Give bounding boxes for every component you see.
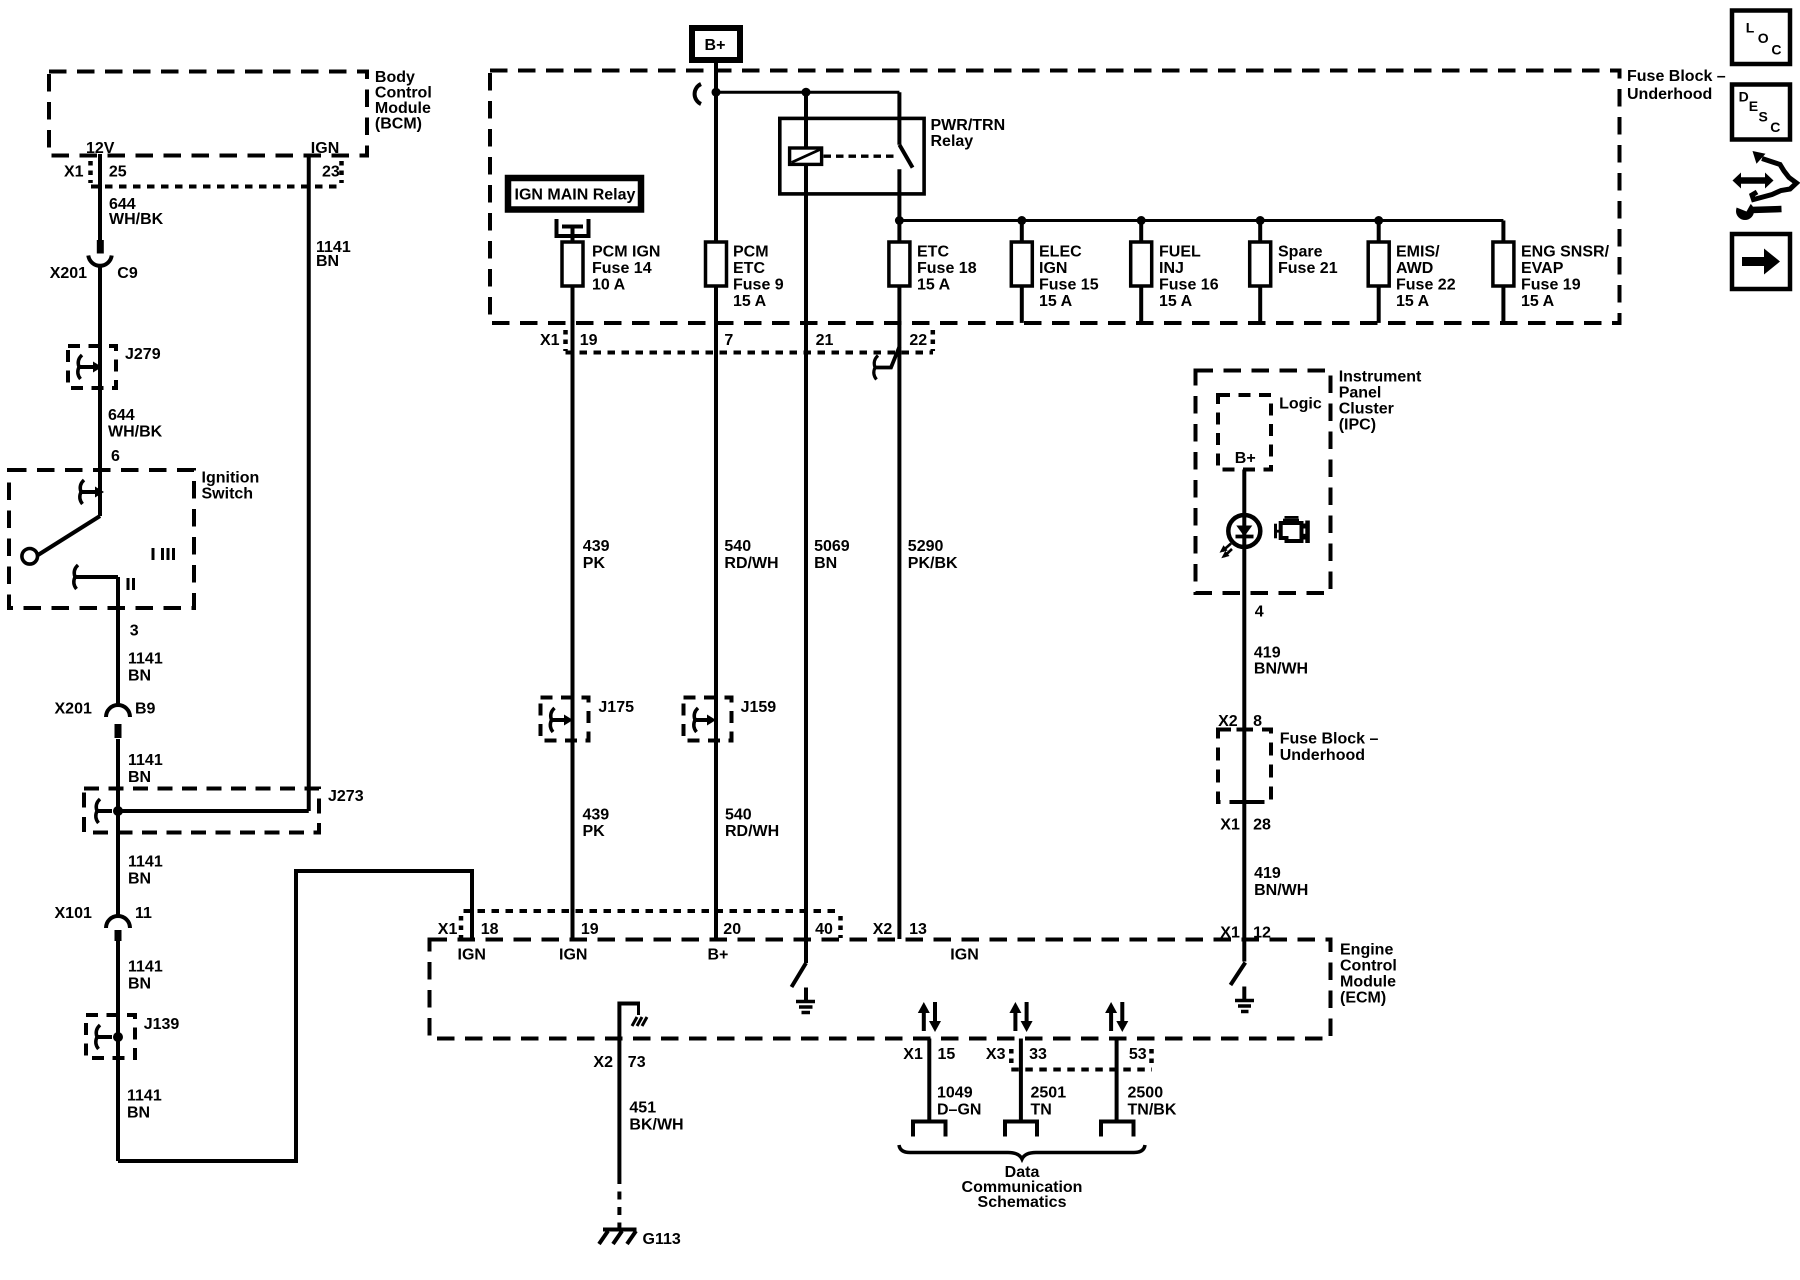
svg-text:J279: J279 xyxy=(125,346,161,363)
svg-text:Panel: Panel xyxy=(1339,385,1382,402)
svg-text:6: 6 xyxy=(111,448,120,465)
svg-text:X3: X3 xyxy=(986,1046,1006,1063)
svg-text:FUEL: FUEL xyxy=(1159,244,1201,261)
svg-text:Spare: Spare xyxy=(1278,244,1323,261)
svg-text:TN: TN xyxy=(1031,1102,1052,1119)
svg-text:23: 23 xyxy=(322,164,340,181)
svg-text:B+: B+ xyxy=(1235,450,1256,467)
svg-text:2500: 2500 xyxy=(1128,1085,1164,1102)
svg-text:O: O xyxy=(1758,30,1769,46)
svg-text:X201: X201 xyxy=(50,265,87,282)
svg-text:Fuse 21: Fuse 21 xyxy=(1278,260,1338,277)
svg-text:22: 22 xyxy=(909,332,927,349)
svg-text:INJ: INJ xyxy=(1159,260,1184,277)
svg-text:15 A: 15 A xyxy=(1159,293,1193,310)
svg-text:BN/WH: BN/WH xyxy=(1254,661,1308,678)
svg-text:439: 439 xyxy=(583,807,610,824)
svg-text:Fuse 15: Fuse 15 xyxy=(1039,277,1099,294)
svg-text:15 A: 15 A xyxy=(917,277,951,294)
svg-text:11: 11 xyxy=(135,905,152,922)
svg-text:X1: X1 xyxy=(1220,817,1240,834)
svg-text:644: 644 xyxy=(108,407,135,424)
svg-text:X201: X201 xyxy=(55,701,92,718)
svg-text:Fuse Block –: Fuse Block – xyxy=(1627,68,1726,85)
svg-text:J175: J175 xyxy=(598,699,634,716)
svg-text:RD/WH: RD/WH xyxy=(725,823,779,840)
svg-text:J159: J159 xyxy=(741,699,777,716)
svg-text:PK/BK: PK/BK xyxy=(908,555,958,572)
svg-text:X2: X2 xyxy=(593,1054,613,1071)
svg-text:Underhood: Underhood xyxy=(1627,86,1712,103)
svg-text:(IPC): (IPC) xyxy=(1339,417,1376,434)
svg-text:53: 53 xyxy=(1129,1046,1147,1063)
svg-text:PK: PK xyxy=(583,555,606,572)
svg-text:Control: Control xyxy=(1340,958,1397,975)
svg-text:1141: 1141 xyxy=(127,1088,162,1105)
svg-text:X1: X1 xyxy=(438,921,458,938)
svg-text:Cluster: Cluster xyxy=(1339,401,1394,418)
svg-text:419: 419 xyxy=(1254,645,1281,662)
svg-text:B9: B9 xyxy=(135,701,156,718)
svg-text:TN/BK: TN/BK xyxy=(1128,1102,1177,1119)
svg-text:J273: J273 xyxy=(328,788,364,805)
svg-text:12V: 12V xyxy=(86,140,115,157)
svg-text:B+: B+ xyxy=(705,37,726,54)
svg-text:IGN: IGN xyxy=(1039,260,1067,277)
svg-text:1141: 1141 xyxy=(128,651,163,668)
svg-text:40: 40 xyxy=(815,921,833,938)
svg-text:1049: 1049 xyxy=(937,1085,973,1102)
svg-text:EMIS/: EMIS/ xyxy=(1396,244,1440,261)
svg-text:25: 25 xyxy=(109,164,127,181)
svg-text:RD/WH: RD/WH xyxy=(724,555,778,572)
svg-text:ETC: ETC xyxy=(733,260,765,277)
svg-text:IGN: IGN xyxy=(458,947,486,964)
svg-text:Ignition: Ignition xyxy=(202,470,260,487)
svg-text:73: 73 xyxy=(628,1054,646,1071)
svg-text:33: 33 xyxy=(1029,1046,1047,1063)
svg-text:PCM: PCM xyxy=(733,244,769,261)
svg-text:10 A: 10 A xyxy=(592,277,626,294)
svg-text:C: C xyxy=(1771,42,1781,58)
svg-text:X101: X101 xyxy=(55,905,92,922)
svg-text:Fuse Block –: Fuse Block – xyxy=(1280,731,1379,748)
svg-text:PCM IGN: PCM IGN xyxy=(592,244,660,261)
svg-text:3: 3 xyxy=(130,623,139,640)
svg-text:13: 13 xyxy=(909,921,927,938)
svg-text:E: E xyxy=(1749,98,1758,114)
svg-text:BN: BN xyxy=(128,668,151,685)
svg-text:X2: X2 xyxy=(873,921,893,938)
svg-text:G113: G113 xyxy=(643,1231,681,1248)
svg-text:15 A: 15 A xyxy=(1396,293,1430,310)
svg-text:Switch: Switch xyxy=(202,486,254,503)
svg-text:L: L xyxy=(1746,20,1755,36)
svg-text:15 A: 15 A xyxy=(733,293,767,310)
svg-text:Logic: Logic xyxy=(1279,396,1322,413)
svg-text:C: C xyxy=(1770,119,1780,135)
svg-text:Fuse 18: Fuse 18 xyxy=(917,260,977,277)
svg-text:(ECM): (ECM) xyxy=(1340,990,1386,1007)
svg-text:BN: BN xyxy=(316,253,339,270)
svg-text:J139: J139 xyxy=(144,1016,180,1033)
svg-text:20: 20 xyxy=(723,921,741,938)
svg-text:ETC: ETC xyxy=(917,244,949,261)
svg-text:Module: Module xyxy=(1340,974,1396,991)
svg-text:IGN: IGN xyxy=(311,140,339,157)
svg-text:1141: 1141 xyxy=(128,959,163,976)
svg-text:Fuse 16: Fuse 16 xyxy=(1159,277,1219,294)
svg-text:12: 12 xyxy=(1253,925,1271,942)
svg-text:Instrument: Instrument xyxy=(1339,369,1422,386)
svg-text:AWD: AWD xyxy=(1396,260,1433,277)
svg-text:Body: Body xyxy=(375,69,415,86)
svg-text:X2: X2 xyxy=(1218,713,1238,730)
svg-text:S: S xyxy=(1759,109,1768,125)
svg-text:BN: BN xyxy=(127,1105,150,1122)
svg-text:X1: X1 xyxy=(903,1046,923,1063)
svg-text:7: 7 xyxy=(724,332,733,349)
svg-text:1141: 1141 xyxy=(128,752,163,769)
svg-text:D–GN: D–GN xyxy=(937,1102,981,1119)
svg-text:1141: 1141 xyxy=(128,854,163,871)
svg-text:4: 4 xyxy=(1255,604,1264,621)
svg-text:BN/WH: BN/WH xyxy=(1254,882,1308,899)
svg-text:IGN: IGN xyxy=(559,947,587,964)
svg-text:WH/BK: WH/BK xyxy=(109,211,164,228)
svg-text:X1: X1 xyxy=(540,332,560,349)
svg-text:D: D xyxy=(1739,89,1749,105)
svg-text:EVAP: EVAP xyxy=(1521,260,1564,277)
svg-text:19: 19 xyxy=(580,332,598,349)
svg-text:5290: 5290 xyxy=(908,538,944,555)
svg-text:Fuse 9: Fuse 9 xyxy=(733,277,784,294)
svg-text:BN: BN xyxy=(128,769,151,786)
svg-text:419: 419 xyxy=(1254,865,1281,882)
svg-text:2501: 2501 xyxy=(1031,1085,1067,1102)
svg-text:18: 18 xyxy=(481,921,499,938)
svg-text:Engine: Engine xyxy=(1340,942,1393,959)
svg-text:Module: Module xyxy=(375,100,431,117)
svg-text:ELEC: ELEC xyxy=(1039,244,1082,261)
svg-text:8: 8 xyxy=(1253,713,1262,730)
svg-text:451: 451 xyxy=(629,1100,656,1117)
svg-text:540: 540 xyxy=(725,807,752,824)
svg-text:Fuse 19: Fuse 19 xyxy=(1521,277,1581,294)
svg-text:21: 21 xyxy=(816,332,834,349)
svg-text:X1: X1 xyxy=(1220,925,1240,942)
svg-text:Fuse 14: Fuse 14 xyxy=(592,260,652,277)
svg-text:BK/WH: BK/WH xyxy=(629,1117,683,1134)
svg-text:15 A: 15 A xyxy=(1521,293,1555,310)
svg-text:IGN MAIN Relay: IGN MAIN Relay xyxy=(515,187,636,204)
svg-text:(BCM): (BCM) xyxy=(375,116,422,133)
svg-text:BN: BN xyxy=(814,555,837,572)
svg-text:19: 19 xyxy=(581,921,599,938)
svg-text:BN: BN xyxy=(128,871,151,888)
svg-text:439: 439 xyxy=(583,538,610,555)
svg-text:PWR/TRN: PWR/TRN xyxy=(931,117,1006,134)
svg-text:B+: B+ xyxy=(708,947,729,964)
svg-text:C9: C9 xyxy=(117,265,138,282)
svg-text:PK: PK xyxy=(583,823,606,840)
svg-text:WH/BK: WH/BK xyxy=(108,424,163,441)
svg-text:Underhood: Underhood xyxy=(1280,747,1365,764)
svg-text:5069: 5069 xyxy=(814,538,850,555)
svg-text:X1: X1 xyxy=(64,164,84,181)
svg-text:15: 15 xyxy=(938,1046,956,1063)
svg-text:28: 28 xyxy=(1253,817,1271,834)
svg-text:IGN: IGN xyxy=(950,947,978,964)
svg-text:Relay: Relay xyxy=(931,133,974,150)
svg-text:Control: Control xyxy=(375,85,432,102)
svg-text:15 A: 15 A xyxy=(1039,293,1073,310)
svg-text:Fuse 22: Fuse 22 xyxy=(1396,277,1456,294)
svg-text:540: 540 xyxy=(724,538,751,555)
svg-text:ENG SNSR/: ENG SNSR/ xyxy=(1521,244,1610,261)
svg-text:BN: BN xyxy=(128,976,151,993)
svg-text:Schematics: Schematics xyxy=(978,1194,1067,1211)
